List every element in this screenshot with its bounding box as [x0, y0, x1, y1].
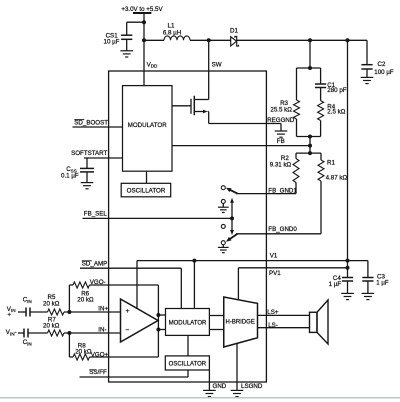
svg-text:SW: SW: [212, 61, 222, 68]
svg-text:SD_AMP: SD_AMP: [82, 260, 107, 267]
svg-text:+: +: [7, 311, 11, 318]
svg-text:1 µF: 1 µF: [376, 279, 389, 286]
svg-text:SS/FF: SS/FF: [89, 369, 107, 376]
svg-text:4.87 kΩ: 4.87 kΩ: [326, 175, 348, 182]
svg-text:6.8 µH: 6.8 µH: [163, 30, 181, 37]
svg-text:PV1: PV1: [269, 270, 281, 277]
svg-text:FB_SEL: FB_SEL: [84, 211, 108, 218]
svg-text:20 kΩ: 20 kΩ: [75, 349, 92, 356]
svg-text:OSCILLATOR: OSCILLATOR: [169, 361, 207, 367]
svg-text:25.5 kΩ: 25.5 kΩ: [270, 106, 292, 113]
svg-text:LS-: LS-: [268, 322, 278, 329]
svg-text:20 kΩ: 20 kΩ: [43, 300, 60, 307]
svg-text:LS+: LS+: [267, 309, 279, 316]
svg-text:C2: C2: [378, 61, 386, 68]
svg-text:20 kΩ: 20 kΩ: [77, 296, 94, 303]
svg-text:2.5 kΩ: 2.5 kΩ: [327, 109, 345, 116]
svg-text:D1: D1: [230, 28, 238, 35]
svg-text:OSCILLATOR: OSCILLATOR: [127, 187, 166, 194]
svg-text:REGGND: REGGND: [267, 117, 295, 124]
svg-text:LSGND: LSGND: [241, 383, 263, 390]
svg-text:0.1 µF: 0.1 µF: [61, 173, 79, 180]
svg-text:H-BRIDGE: H-BRIDGE: [226, 320, 255, 326]
svg-text:SD_BOOST: SD_BOOST: [74, 119, 108, 126]
svg-text:V1: V1: [270, 253, 278, 260]
svg-text:FB: FB: [277, 138, 285, 145]
svg-text:L1: L1: [168, 22, 175, 29]
svg-text:MODULATOR: MODULATOR: [128, 122, 167, 129]
svg-text:FB_GND0: FB_GND0: [268, 226, 297, 233]
svg-text:1 µF: 1 µF: [329, 281, 342, 288]
svg-text:280 pF: 280 pF: [327, 87, 346, 94]
svg-text:FB_GND1: FB_GND1: [268, 188, 297, 195]
svg-text:IN-: IN-: [98, 326, 106, 333]
svg-text:100 µF: 100 µF: [374, 69, 394, 76]
svg-text:+: +: [126, 308, 130, 315]
svg-text:IN+: IN+: [98, 305, 108, 312]
svg-text:MODULATOR: MODULATOR: [169, 320, 207, 326]
svg-text:20 kΩ: 20 kΩ: [43, 323, 60, 330]
svg-text:−: −: [126, 327, 130, 334]
svg-text:9.31 kΩ: 9.31 kΩ: [270, 162, 292, 169]
svg-text:10 µF: 10 µF: [104, 38, 120, 45]
svg-text:GND: GND: [213, 383, 227, 390]
svg-text:SOFTSTART: SOFTSTART: [71, 150, 107, 157]
svg-text:R1: R1: [327, 160, 335, 167]
